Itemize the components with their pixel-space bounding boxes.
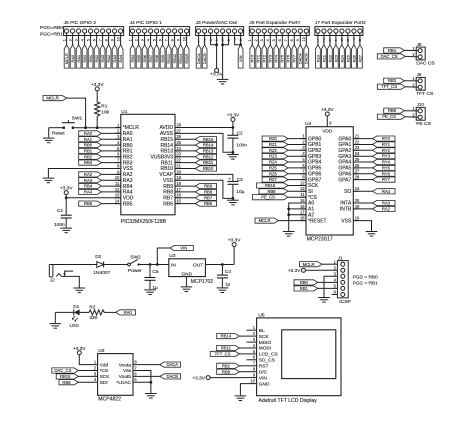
ground (U3): [145, 394, 157, 399]
pin 28 AVDD: [159, 122, 181, 131]
net flag DAC_CS (U3 pin 2): [52, 368, 79, 373]
svg-text:RB8: RB8: [204, 190, 213, 195]
connector J1 ICSP header: [337, 255, 350, 305]
wire PE_CS to J10 pin 2: [405, 116, 418, 119]
wire +3.3V to C2: [232, 122, 234, 136]
net flag RB4 (J4 pin 1): [130, 45, 135, 68]
pin 3 SCK (U3): [94, 371, 110, 380]
wire TFT_CS to J9 pin 2: [405, 86, 418, 89]
svg-text:+3.3V: +3.3V: [321, 107, 334, 113]
pin 18 RB9: [163, 181, 181, 190]
net flag RB8 (U3 pin 4): [59, 380, 78, 385]
svg-text:Vouta: Vouta: [119, 362, 132, 368]
pin 2 SCK (U5): [247, 331, 270, 340]
svg-text:RB15: RB15: [203, 137, 214, 142]
capacitor C4 1u: [217, 269, 231, 287]
net flag RB2 (U1 pin 6): [79, 154, 102, 159]
pin 1 GPB0: [300, 134, 321, 143]
wire DAC_CS to U3 *CS: [78, 370, 97, 372]
svg-text:RY7: RY7: [382, 177, 391, 182]
svg-text:RB15: RB15: [184, 54, 189, 64]
pin 13 VDD: [115, 193, 134, 202]
svg-text:RZ0: RZ0: [269, 136, 278, 141]
svg-text:RB0: RB0: [82, 54, 87, 62]
svg-text:RB9: RB9: [222, 369, 231, 374]
wire U3 Vouta to DACA: [133, 364, 160, 366]
svg-text:RB11: RB11: [203, 160, 214, 165]
net flag RA0 (LED): [116, 310, 136, 315]
wire RZ6 to U4 GPB6: [288, 173, 306, 175]
svg-text:MCLR: MCLR: [46, 96, 58, 101]
wire RB8 to U4 SI: [288, 190, 306, 192]
svg-text:RZ7: RZ7: [269, 177, 278, 182]
junction Vss/*LDAC: [150, 381, 153, 384]
net flag RB7 (J4 pin 4): [148, 45, 153, 68]
wire RZ5 to U4 GPB5: [288, 167, 306, 169]
pin 26 RB15: [160, 134, 181, 143]
net flag RB4 (J8 pin 1): [384, 48, 405, 53]
net flag RA1 (U1 pin 3): [79, 137, 102, 142]
+3.3V supply (J3): [210, 68, 223, 77]
pin 24 GPA3: [338, 151, 360, 160]
svg-text:17: 17: [176, 187, 181, 192]
svg-text:25: 25: [176, 140, 181, 145]
svg-text:OUT: OUT: [193, 262, 203, 268]
wire RZ7 to U4 GPB7: [288, 179, 306, 181]
wire J5 pin 6: [96, 33, 98, 45]
svg-text:VIN: VIN: [259, 375, 268, 381]
svg-text:+3.3V: +3.3V: [210, 72, 223, 78]
svg-text:7: 7: [284, 39, 288, 41]
net flag RZ0 (J7 pin 1): [315, 45, 320, 68]
wire U3 *LDAC to ground: [133, 382, 151, 393]
svg-text:+3.3V: +3.3V: [227, 113, 240, 119]
net flag RA4 (U4 pin 14): [373, 189, 396, 194]
svg-text:RZ4: RZ4: [269, 160, 278, 165]
net flag RA3 (U1 pin 10): [79, 178, 102, 183]
wire U5 GND to ground: [240, 384, 246, 396]
pin 14 SO: [344, 186, 360, 195]
svg-text:MOSI: MOSI: [259, 346, 271, 352]
pin 22 GPA1: [338, 139, 360, 148]
connector J9 header: [412, 72, 434, 97]
J3 pin numbers: [197, 38, 242, 43]
net flag RZ7 (U4 pin 8): [262, 177, 288, 182]
junction C4: [221, 263, 224, 266]
svg-text:25: 25: [355, 157, 360, 162]
wire RB12 from U1: [175, 156, 195, 158]
junction R1 bottom: [96, 126, 99, 129]
wire RA2 from U4 INTB: [353, 208, 372, 210]
svg-text:RB8: RB8: [62, 380, 71, 385]
pin 20 VCAP: [159, 169, 181, 178]
net flag RB11 (J4 pin 8): [172, 45, 177, 68]
wire J5 pin 9: [114, 33, 116, 45]
wire J7 pin 6: [347, 33, 349, 45]
op IC U3 MCP4822 body: [98, 348, 133, 402]
wire VIN node: [157, 248, 170, 265]
svg-text:LED: LED: [70, 323, 80, 329]
junction J3 VIN: [239, 43, 242, 46]
net flag RB9 (U5 pin 8): [217, 369, 240, 374]
svg-text:19: 19: [355, 204, 360, 209]
capacitor C2 100n: [227, 131, 247, 149]
regulator U2 MCP1702 body: [169, 253, 213, 285]
wire C2 to ground: [232, 138, 234, 154]
net flag RB9 (J4 pin 6): [160, 45, 165, 68]
svg-text:DACA: DACA: [166, 362, 178, 367]
svg-text:11: 11: [300, 192, 305, 197]
svg-text:RB6: RB6: [142, 55, 147, 63]
wire J5 pin 7: [102, 33, 104, 45]
net flag RZ4 (J7 pin 5): [339, 45, 344, 68]
svg-text:5: 5: [153, 39, 157, 41]
svg-text:DAC_CS: DAC_CS: [54, 368, 71, 373]
wire RY5 from U4 GPA5: [353, 167, 372, 169]
svg-text:SDI: SDI: [100, 380, 108, 386]
svg-text:1: 1: [248, 39, 252, 41]
net flag RB1 (J5 pin 5): [88, 45, 93, 68]
net flag RY3 (J6 pin 4): [268, 45, 273, 68]
pin 23 GPA2: [338, 145, 360, 154]
svg-text:28: 28: [355, 175, 360, 180]
svg-text:C3: C3: [237, 177, 243, 183]
wire RB11 from U1: [175, 162, 195, 164]
pin 11 RB4: [115, 181, 133, 190]
net flag RA0 (U1 pin 2): [79, 131, 102, 136]
pin 7 GPB6: [300, 169, 321, 178]
svg-text:SCK: SCK: [259, 334, 270, 340]
net flag RY6 (J6 pin 7): [286, 45, 291, 68]
svg-text:5: 5: [272, 39, 276, 41]
svg-text:RB5: RB5: [84, 201, 93, 206]
net flag RY3 (U4 pin 24): [373, 154, 396, 159]
svg-text:R1: R1: [101, 104, 107, 110]
ground (J2): [74, 288, 86, 293]
svg-text:5: 5: [87, 39, 91, 41]
ground (U5): [235, 396, 247, 401]
svg-text:10µ: 10µ: [236, 189, 244, 195]
svg-text:8: 8: [171, 39, 175, 41]
wire RB0 to J1 pin 4: [318, 281, 338, 283]
net flag RB8 (U4 pin 13): [259, 189, 288, 194]
net flag RB5 (U1 pin 14): [79, 201, 102, 206]
wire RB9 from U1: [175, 185, 195, 187]
wire J4 pin 7: [168, 33, 170, 45]
svg-text:GND: GND: [259, 381, 270, 387]
net flag RA0 (J5 pin 2): [70, 45, 75, 68]
net flag RY4 (J6 pin 5): [274, 45, 279, 68]
net flag TFT_CS (U5 pin 5): [210, 351, 239, 356]
wire D1 to R2: [80, 311, 89, 313]
wire RB0 to U1 pin 4: [102, 144, 121, 146]
connector J6 header: [249, 20, 309, 35]
pin 10 VSS: [341, 216, 360, 225]
net flag RY7 (J6 pin 8): [292, 45, 297, 68]
net flag RB10 (J4 pin 7): [166, 45, 171, 68]
svg-text:RY3: RY3: [268, 55, 273, 63]
LED D1: [70, 304, 80, 329]
net flag RB15 (U3 pin 3): [56, 374, 78, 379]
pin 21 GPA0: [338, 134, 360, 143]
wire RB7 from U1: [175, 197, 195, 199]
net flag RB6 (U1 pin 15): [195, 201, 216, 206]
net flag RB12 (U1 pin 23): [195, 154, 216, 159]
net flag RB0 (U1 pin 4): [79, 143, 102, 148]
svg-text:DAC CS: DAC CS: [416, 61, 435, 67]
svg-text:RA0: RA0: [70, 54, 75, 62]
svg-text:6: 6: [159, 39, 163, 41]
svg-text:RB5: RB5: [123, 201, 133, 207]
pin 26 GPA5: [338, 163, 360, 172]
net flag DACB (J3 pin 2): [202, 45, 207, 68]
net flag MCLR (J5 pin 1): [64, 45, 69, 68]
svg-text:Vss: Vss: [123, 368, 132, 374]
wire RB2 to U1 pin 6: [102, 156, 121, 158]
svg-text:RB8: RB8: [267, 189, 276, 194]
net flag RY5 (U4 pin 26): [373, 165, 396, 170]
+3.3V supply (R1): [91, 82, 104, 91]
svg-text:LCD_CS: LCD_CS: [259, 352, 278, 358]
svg-text:J6 Port Expander PortY: J6 Port Expander PortY: [249, 20, 301, 26]
svg-text:GND: GND: [181, 271, 192, 277]
wire J6 pin 9: [299, 33, 301, 45]
svg-text:9: 9: [296, 39, 300, 41]
svg-text:RB9: RB9: [204, 184, 213, 189]
svg-text:IN: IN: [171, 262, 176, 268]
svg-text:PGD=RB0: PGD=RB0: [40, 25, 63, 31]
wire J6 pin 2: [257, 33, 259, 45]
svg-text:J8: J8: [417, 42, 422, 47]
pin 24 RB13: [160, 146, 181, 155]
wire J5 pin 5: [90, 33, 92, 45]
svg-text:MCLR: MCLR: [303, 262, 315, 267]
ground (U1 VSS): [43, 178, 55, 183]
svg-text:RB2: RB2: [84, 154, 93, 159]
svg-text:RY4: RY4: [274, 54, 279, 62]
wire RZ0 to U4 GPB0: [288, 138, 306, 140]
net flag RA2 (U1 pin 9): [79, 172, 102, 177]
net flag RB13 (U1 pin 24): [195, 148, 216, 153]
pin 9 VDD (U4): [322, 116, 333, 134]
pin 21 RB10: [160, 163, 181, 172]
net flag RZ2 (U4 pin 3): [262, 148, 288, 153]
svg-text:13: 13: [300, 186, 305, 191]
pin 7 RB3: [115, 158, 133, 167]
svg-text:23: 23: [355, 145, 360, 150]
wire SW1 to ground: [48, 128, 50, 138]
wire C1 to ground: [65, 218, 67, 228]
svg-text:*CS: *CS: [100, 368, 109, 374]
pin 9 RA2: [115, 169, 133, 178]
wire J4 pin 4: [150, 33, 152, 45]
wire RY0 from U4 GPA0: [353, 138, 372, 140]
svg-text:RY1: RY1: [382, 142, 391, 147]
net flag DACA (U3 pin 8): [160, 362, 181, 367]
svg-text:J5 PIC GPIO 2: J5 PIC GPIO 2: [64, 20, 97, 26]
+3.3V supply (regulator output): [228, 238, 241, 247]
svg-text:DACB: DACB: [166, 374, 178, 379]
svg-text:Adafruit TFT LCD Display: Adafruit TFT LCD Display: [258, 398, 317, 404]
wire RB10 from U1: [175, 168, 195, 170]
svg-text:VIN: VIN: [238, 55, 243, 62]
net flag RA1 (J5 pin 3): [76, 45, 81, 68]
svg-text:MCP23S17: MCP23S17: [307, 237, 333, 243]
svg-text:22: 22: [355, 139, 360, 144]
J7 pin numbers: [317, 38, 362, 43]
svg-text:RA4: RA4: [382, 189, 391, 194]
svg-text:6: 6: [278, 39, 282, 41]
svg-text:RB14: RB14: [203, 143, 214, 148]
wire J5 pin 3: [78, 33, 80, 45]
svg-text:10: 10: [117, 37, 121, 41]
pin 10 GND (U5): [247, 379, 270, 388]
wire J7 pin 3: [329, 33, 331, 45]
svg-text:RA2: RA2: [106, 55, 111, 63]
svg-text:RZ1: RZ1: [321, 55, 326, 62]
net flag RB14 (J4 pin 9): [178, 45, 183, 68]
net flag RB9 (J10 pin 1): [384, 108, 405, 113]
svg-text:9: 9: [177, 39, 181, 41]
wire J6 pin 3: [263, 33, 265, 45]
net flag RB15 (U4 pin 12): [257, 183, 288, 188]
ground (C5): [144, 290, 156, 295]
ground (J1): [318, 298, 330, 303]
wire J7 pin 8: [359, 33, 361, 45]
wire to C4: [221, 265, 223, 276]
capacitor C1 100n: [54, 208, 72, 228]
svg-text:RB0: RB0: [300, 280, 309, 285]
svg-text:4: 4: [266, 39, 270, 41]
+3.3V supply (J1 pin 2): [288, 268, 306, 274]
wire C3 to ground: [232, 184, 234, 198]
wire J4 pin 6: [162, 33, 164, 45]
svg-text:MCLR: MCLR: [64, 53, 69, 64]
net flag RA4 (U1 pin 12): [79, 189, 102, 194]
svg-text:RY5: RY5: [382, 165, 391, 170]
svg-text:RA4: RA4: [118, 54, 123, 62]
net flag RB0 (J5 pin 4): [82, 45, 87, 68]
wire RA3 from U4 INTA: [353, 202, 372, 204]
wire RB15 to U4 SCK: [288, 185, 306, 187]
pin 19 VSS: [163, 175, 182, 184]
svg-text:16: 16: [176, 193, 181, 198]
svg-text:18: 18: [300, 216, 305, 221]
svg-text:20: 20: [176, 169, 181, 174]
wire PE_CS to U4 *CS: [288, 196, 306, 198]
wire RA2 to U1 pin 9: [102, 173, 121, 175]
pin 4 SDI (U3): [94, 377, 108, 386]
ground (C4): [217, 288, 229, 293]
svg-text:MCP4822: MCP4822: [98, 396, 121, 402]
net flag RB11 (U5 pin 4): [217, 345, 240, 350]
wire RA1 to U1 pin 3: [102, 138, 121, 140]
capacitor C5 1u: [145, 269, 159, 291]
svg-text:RB0: RB0: [84, 143, 93, 148]
net flag DACA (J6 pin 9): [298, 45, 303, 68]
wire RB3 to U1 pin 7: [102, 162, 121, 164]
svg-text:10: 10: [183, 37, 187, 41]
svg-text:RB1: RB1: [88, 55, 93, 63]
junction A2: [287, 213, 290, 216]
pin 3 RA1: [115, 134, 133, 143]
wire U1 AVSS to ground node: [175, 133, 233, 152]
svg-text:RZ4: RZ4: [339, 54, 344, 62]
svg-text:RY4: RY4: [382, 160, 391, 165]
wire J5 pin 1: [66, 33, 68, 45]
wire RB4 to J8 pin 1: [404, 49, 418, 51]
junction J3 ground: [221, 43, 224, 46]
svg-text:RZ5: RZ5: [345, 55, 350, 62]
net flag PE_CS (U4 pin 11): [253, 195, 289, 200]
svg-text:12: 12: [115, 187, 120, 192]
wire J4 pin 2: [138, 33, 140, 45]
net flag RB11 (U1 pin 22): [195, 160, 216, 165]
svg-text:RB10: RB10: [203, 166, 214, 171]
svg-text:11: 11: [115, 181, 120, 186]
net flag RY4 (U4 pin 25): [373, 159, 396, 164]
svg-text:RY3: RY3: [382, 154, 391, 159]
svg-text:1: 1: [129, 39, 133, 41]
svg-text:RY2: RY2: [382, 148, 391, 153]
ground (C2): [227, 155, 239, 160]
pin 25 RB14: [160, 140, 181, 149]
svg-text:D2: D2: [95, 254, 101, 260]
svg-text:15: 15: [300, 198, 305, 203]
wire RY1 from U4 GPA1: [353, 144, 372, 146]
pin 8 VSS: [115, 163, 133, 172]
U5 LCD screen area: [282, 330, 336, 379]
svg-text:RB6: RB6: [163, 201, 173, 207]
svg-text:RB9: RB9: [160, 55, 165, 63]
svg-text:27: 27: [355, 169, 360, 174]
net flag RY2 (U4 pin 23): [373, 148, 396, 153]
wire J7 pin 5: [341, 33, 343, 45]
svg-text:PGD = RB0: PGD = RB0: [353, 275, 379, 281]
svg-text:RA1: RA1: [76, 55, 81, 63]
connector J2 barrel jack: [49, 265, 73, 278]
svg-text:SW1: SW1: [72, 116, 83, 122]
svg-text:J4 PIC GPIO 1: J4 PIC GPIO 1: [130, 20, 163, 26]
net flag RZ5 (J7 pin 6): [345, 45, 350, 68]
wire RB6 from U1: [175, 203, 195, 205]
svg-text:14: 14: [355, 186, 360, 191]
wire MCLR to reset node: [67, 98, 86, 128]
svg-text:VDD: VDD: [322, 128, 333, 134]
svg-text:MCLR: MCLR: [259, 218, 271, 223]
svg-text:DACB: DACB: [304, 53, 309, 64]
wire J6 pin 10: [305, 33, 307, 45]
svg-text:24: 24: [355, 151, 360, 156]
wire RB15 to U3 SCK: [78, 375, 97, 377]
svg-text:SD_CS: SD_CS: [259, 358, 275, 364]
svg-text:1: 1: [63, 39, 67, 41]
wire J3 pin 8: [240, 33, 242, 45]
switch SW2 Power: [128, 254, 142, 274]
svg-text:R2: R2: [89, 304, 95, 310]
net flag RZ7 (J7 pin 8): [357, 45, 362, 68]
svg-text:PE CS: PE CS: [416, 121, 431, 127]
svg-text:2: 2: [254, 39, 258, 41]
svg-text:18: 18: [176, 181, 181, 186]
svg-text:RA1: RA1: [84, 137, 93, 142]
svg-text:8: 8: [105, 39, 109, 41]
wire RB2 to U5 RST: [239, 365, 246, 367]
pin 18 *RESET: [300, 216, 327, 225]
svg-text:RZ6: RZ6: [269, 171, 278, 176]
wire RA4 from U4 SO: [353, 190, 372, 192]
svg-text:C1: C1: [57, 208, 63, 214]
